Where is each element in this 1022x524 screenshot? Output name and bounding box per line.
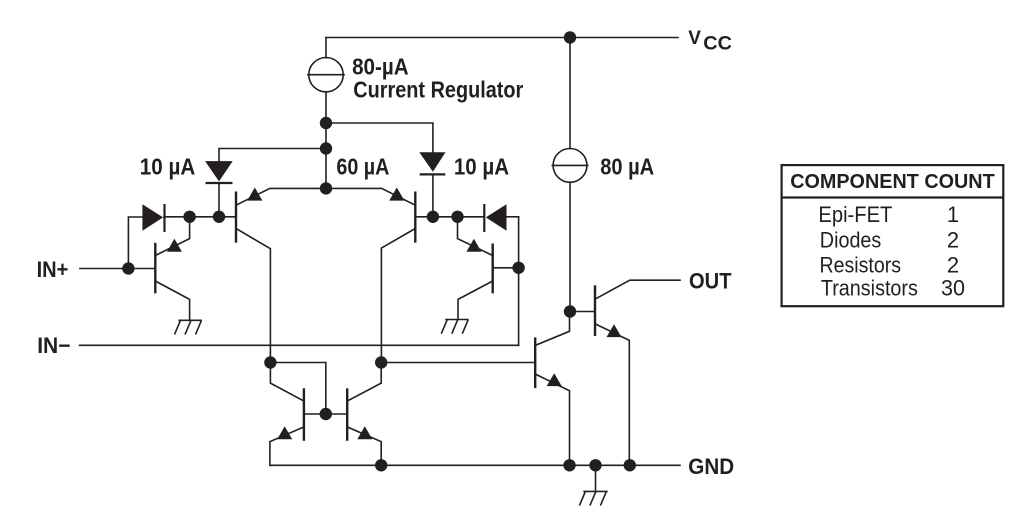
node GND at ground stub <box>589 459 601 471</box>
node mirror emitter rail <box>375 459 387 471</box>
node left base line at D3 <box>183 211 195 223</box>
svg-text:Current Regulator: Current Regulator <box>353 76 523 102</box>
transistor Q3 emitter arrow <box>167 239 182 252</box>
current regulator CR1 circle <box>309 57 343 91</box>
node GND at Q6 emitter <box>563 459 575 471</box>
transistor Q5 emitter arrow <box>607 324 622 337</box>
current source I1 circle <box>553 149 587 183</box>
wire IN+ lead <box>80 268 128 270</box>
node right load <box>375 356 387 368</box>
current source I1 chord <box>552 164 587 166</box>
svg-text:10 µA: 10 µA <box>140 154 196 180</box>
wire tail left to Q1 emitter <box>236 188 326 205</box>
node Q4 base / IN- branch <box>512 262 524 274</box>
transistor Q4 bar (right clamp) <box>492 244 494 294</box>
wire Q6 emitter <box>535 374 569 465</box>
svg-text:60 µA: 60 µA <box>336 154 389 180</box>
wire IN+ up to D3 anode <box>128 217 142 269</box>
table row Resistors <box>820 253 960 278</box>
svg-text:Transistors: Transistors <box>821 276 918 301</box>
svg-text:10 µA: 10 µA <box>454 154 509 180</box>
wire IN- line <box>80 344 519 346</box>
wire Q7 collector <box>270 363 304 402</box>
node regulator out B <box>320 142 332 154</box>
diode D1 (left 10uA) triangle <box>205 161 233 181</box>
svg-text:2: 2 <box>947 227 959 252</box>
svg-text:IN−: IN− <box>37 333 70 358</box>
diode D2 (right 10uA) triangle <box>419 152 445 171</box>
svg-text:IN+: IN+ <box>37 257 69 282</box>
wire Q5 base <box>570 311 595 313</box>
wire center vertical from regulator to tail <box>325 92 327 189</box>
table row Diodes <box>820 227 959 252</box>
wire right base line <box>415 216 484 218</box>
diode D4 (right clamp diode) triangle <box>486 204 507 231</box>
wire Q2 collector down to load node <box>381 229 415 363</box>
wire VCC rail <box>326 37 678 39</box>
transistor Q8 emitter arrow <box>357 426 372 439</box>
svg-text:Diodes: Diodes <box>820 227 882 252</box>
wire Q3 emitter <box>155 217 189 256</box>
wire Q5 emitter <box>595 324 629 466</box>
wire left base line <box>164 216 236 218</box>
diode D4 cathode bar <box>483 204 485 232</box>
node tail <box>320 182 332 194</box>
wire VCC corner into current regulator <box>325 38 327 58</box>
wire ground stub at GND rail <box>595 465 597 491</box>
svg-text:Resistors: Resistors <box>820 253 902 278</box>
transistor Q7 emitter arrow <box>277 426 292 439</box>
wire Q8 emitter <box>347 427 381 465</box>
component count table header line <box>782 196 1004 198</box>
svg-text:80 µA: 80 µA <box>600 154 654 180</box>
transistor Q1 bar (left input PNP) <box>235 192 237 243</box>
transistor Q2 emitter arrow <box>389 188 404 201</box>
node right base line at Q4 emitter <box>451 211 463 223</box>
node left load <box>264 356 276 368</box>
svg-text:COMPONENT COUNT: COMPONENT COUNT <box>790 170 995 193</box>
wire Q7 emitter <box>270 427 304 465</box>
ground symbol left <box>175 320 202 334</box>
diode D2 cathode bar <box>420 173 446 175</box>
transistor Q6 bar (second stage) <box>534 337 536 388</box>
wire mirror base rail <box>304 413 347 415</box>
wire left diode cathode to base line <box>218 183 220 217</box>
transistor Q3 bar (left clamp) <box>154 243 156 293</box>
ground symbol bottom <box>579 491 607 505</box>
ground symbol right <box>441 320 468 334</box>
table row Transistors <box>821 276 965 301</box>
node mirror base <box>320 408 332 420</box>
transistor Q7 bar (mirror left) <box>303 388 305 441</box>
diode D3 cathode bar <box>163 204 165 232</box>
wire Q3 base <box>128 268 154 270</box>
node IN+ <box>122 262 134 274</box>
wire mirror base feed <box>270 363 325 415</box>
table row Epi-FET <box>818 202 959 227</box>
svg-text:2: 2 <box>947 253 959 278</box>
transistor Q1 emitter arrow <box>247 188 262 201</box>
wire D4 anode link <box>507 216 519 218</box>
diode D1 cathode bar <box>206 182 233 184</box>
wire right side vertical D4 anode to IN- <box>518 217 520 345</box>
wire load node to Q6 base <box>381 362 535 364</box>
transistor Q6 emitter arrow <box>547 373 562 386</box>
svg-text:Epi-FET: Epi-FET <box>818 202 892 227</box>
current regulator CR1 chord <box>308 74 344 76</box>
wire Q4 collector to ground <box>458 281 493 320</box>
node left base line at D1 <box>213 211 225 223</box>
svg-text:OUT: OUT <box>689 269 732 294</box>
wire 80uA source top <box>569 38 571 149</box>
svg-text:30: 30 <box>941 276 965 301</box>
svg-text:V: V <box>688 28 701 49</box>
transistor Q8 bar (mirror right) <box>346 388 348 441</box>
svg-text:CC: CC <box>703 33 732 55</box>
wire Q8 collector <box>347 363 381 402</box>
node right base line at D2 <box>427 211 439 223</box>
wire right diode cathode to base line <box>432 174 434 216</box>
svg-text:GND: GND <box>688 454 734 479</box>
wire 80uA source bottom <box>569 182 571 311</box>
transistor Q5 bar (output) <box>594 285 596 336</box>
svg-text:1: 1 <box>947 202 959 227</box>
wire branch to right 10uA diode <box>326 123 433 152</box>
wire branch to left 10uA diode <box>219 149 326 162</box>
diode D3 (left clamp diode) triangle <box>142 204 163 231</box>
wire Q5 collector to OUT <box>595 280 680 299</box>
wire GND rail <box>270 464 680 466</box>
label VCC <box>688 28 732 55</box>
wire Q3 collector to ground <box>155 281 189 320</box>
wire Q4 emitter <box>458 217 493 256</box>
wire Q1 collector down to load node <box>236 229 270 363</box>
wire tail right to Q2 emitter <box>326 188 415 205</box>
node GND at Q5 emitter <box>624 459 636 471</box>
node regulator out A <box>320 117 332 129</box>
transistor Q4 emitter arrow <box>466 239 481 252</box>
transistor Q2 bar (right input PNP) <box>414 192 416 243</box>
node VCC junction <box>564 31 576 43</box>
component count table border <box>782 165 1004 306</box>
node Q5 base <box>564 305 576 317</box>
wire Q4 base <box>494 267 519 269</box>
wire Q6 collector <box>535 312 569 346</box>
